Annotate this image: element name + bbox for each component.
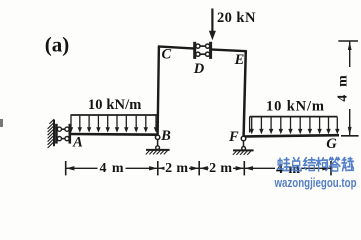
svg-text:A: A [72, 135, 83, 151]
wire: column B-C [158, 46, 159, 134]
蛙 [278, 158, 290, 171]
link hinge D [195, 42, 211, 59]
dim label 2 m [165, 161, 190, 177]
结 [304, 158, 315, 171]
疑 [342, 158, 354, 171]
wire: top beam D-E [210, 49, 247, 51]
dim label 4 m [98, 161, 126, 177]
watermark line 1: 蛙总结构答疑 (drawn strokes) [278, 158, 354, 171]
support F (roller link support) [233, 136, 254, 155]
构 [316, 158, 327, 171]
svg-text:C: C [161, 46, 171, 62]
svg-text:F: F [228, 129, 239, 145]
svg-text:10 kN/m: 10 kN/m [88, 97, 142, 113]
dim label 4 m (under watermark) [275, 161, 301, 177]
edge artifact [0, 119, 3, 127]
support A (double-link sliding support with wall) [48, 119, 70, 148]
wire: beam F-G [244, 135, 339, 136]
dimension line bottom [66, 161, 331, 175]
svg-text:E: E [234, 52, 245, 68]
svg-text:B: B [160, 128, 171, 144]
arrowheads [66, 166, 330, 170]
svg-text:D: D [193, 61, 205, 77]
总 [291, 158, 301, 171]
svg-text:10 kN/m: 10 kN/m [266, 99, 324, 115]
ticks [65, 161, 67, 175]
svg-text:2 m: 2 m [165, 161, 188, 176]
dim label 2 m [209, 161, 234, 177]
support B (roller link support) [146, 135, 170, 154]
wire: beam A-B [70, 133, 158, 136]
svg-text:(a): (a) [45, 33, 70, 57]
distributed load right 10 kN/m [250, 117, 340, 135]
答 [329, 158, 340, 171]
distributed load left 10 kN/m [69, 115, 158, 133]
svg-text:20 kN: 20 kN [217, 10, 256, 26]
svg-text:G: G [326, 136, 337, 152]
wire: column E-F [244, 50, 246, 136]
wire: top beam C-D [158, 46, 195, 48]
svg-text:2 m: 2 m [209, 161, 232, 176]
svg-text:wazongjiegou.top: wazongjiegou.top [274, 176, 357, 190]
force 20 kN arrow [209, 9, 216, 41]
svg-text:4 m: 4 m [100, 161, 124, 176]
dimension line right 4 m [338, 41, 358, 136]
